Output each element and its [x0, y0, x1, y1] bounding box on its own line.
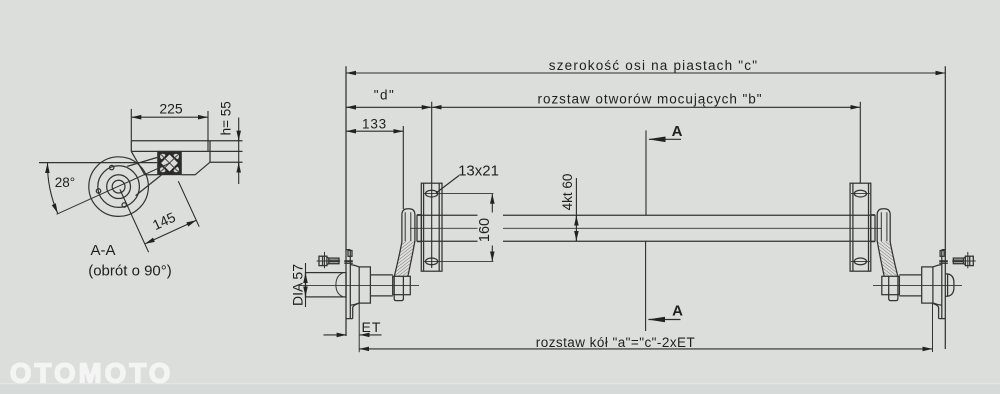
section line A top: [645, 130, 647, 215]
angle arc 28 deg: [47, 163, 57, 213]
h=55 arrow top: [238, 132, 240, 141]
background patch for 160: [478, 213, 504, 246]
right flange face line (also extension for c): [944, 66, 946, 349]
left bearing drum: [359, 267, 370, 303]
hub bore circle: [112, 180, 125, 193]
h=55 arrow bottom: [238, 163, 240, 172]
dimension 145 extension line at hub: [120, 189, 149, 252]
left boss inner lines: [405, 212, 411, 241]
bottom dimension a line: [359, 348, 932, 350]
swing arm edges (section view): [127, 157, 161, 195]
left wheel plane line: [358, 303, 360, 352]
right boss inner lines: [881, 212, 887, 241]
right flange clip line 2: [939, 262, 948, 264]
left mounting plate: [421, 183, 442, 271]
4kt60 arrow bottom: [575, 232, 577, 241]
bracket top plate: [131, 141, 242, 162]
right swing arm boss: [877, 209, 890, 242]
svg-text:OTOMOTO: OTOMOTO: [10, 358, 173, 389]
right stub dome: [945, 274, 954, 296]
right slot center lines: [851, 194, 870, 262]
left slot center lines: [423, 194, 493, 262]
dimension d line: [346, 106, 432, 108]
left flange plate: [346, 250, 353, 319]
dimension 145 line: [145, 220, 196, 244]
svg-text:4kt 60: 4kt 60: [560, 174, 575, 211]
dia57 arrow top: [305, 273, 307, 282]
svg-text:225: 225: [159, 101, 183, 117]
dimension h=55 line: [238, 118, 240, 185]
axle tube center line: [410, 227, 881, 229]
leader 13x21: [436, 176, 459, 194]
hub outer circle: [89, 157, 149, 217]
svg-text:A: A: [672, 303, 683, 320]
left plate top slot: [426, 190, 438, 197]
hub inner circle: [107, 175, 131, 199]
right hub center line: [873, 284, 962, 286]
bracket lower body: [131, 151, 242, 174]
right bearing drum: [922, 267, 933, 303]
right wheel stud bolt: [952, 252, 976, 268]
left cone: [350, 265, 359, 306]
section arrow A top: [648, 137, 681, 143]
4kt60 arrow top: [575, 216, 577, 225]
left flange skirt fillet: [353, 303, 359, 307]
svg-text:A-A: A-A: [90, 242, 115, 259]
left flange top tab: [348, 251, 352, 257]
svg-text:"d": "d": [374, 88, 396, 103]
tube end cap left: [417, 215, 421, 242]
dia57 dimension line: [305, 263, 307, 307]
svg-text:A: A: [672, 123, 683, 140]
extension line b right (slot center): [859, 102, 861, 183]
right clamp block: [882, 276, 900, 300]
svg-text:h= 55: h= 55: [219, 101, 234, 135]
square torsion tube cross-section: [157, 151, 182, 175]
svg-text:133: 133: [362, 117, 387, 132]
right swing arm band: [877, 242, 898, 277]
right swing arm band edges: [877, 242, 898, 277]
extension line b left (slot center): [431, 102, 433, 268]
hub bolt hole 1: [110, 165, 114, 169]
left hub center line: [299, 284, 419, 286]
axle tube bottom line: [417, 240, 875, 242]
left swing arm band edges: [394, 242, 415, 277]
left swing arm boss: [402, 209, 415, 242]
left clamp block: [393, 276, 411, 300]
right wheel plane line: [932, 303, 934, 352]
dimension 225 line: [131, 116, 208, 118]
extension line 133: [402, 126, 404, 209]
right flange skirt fillet: [933, 303, 939, 307]
left wheel stud bolt: [317, 252, 341, 268]
left spindle: [370, 275, 392, 296]
svg-text:28°: 28°: [55, 175, 75, 190]
svg-text:ET: ET: [362, 319, 382, 335]
dimension 225 extension lines: [131, 109, 208, 151]
section arrow A bottom: [648, 317, 681, 323]
dimension 160 line: [491, 194, 493, 262]
tube center horizontal ray: [39, 162, 157, 164]
right cone: [933, 265, 942, 306]
right spindle: [899, 275, 921, 296]
left dia57 cylinder: [306, 273, 347, 297]
left swing arm band: [394, 242, 415, 277]
dimension c line: [346, 72, 945, 74]
dimension 133 line: [346, 130, 403, 132]
hub bolt hole 2: [96, 189, 100, 193]
tube end cap right: [871, 215, 875, 242]
right flange plate: [939, 250, 946, 319]
arm axis ray 28 deg: [57, 163, 171, 214]
section line A bottom: [645, 241, 647, 331]
dimension 4kt60 line: [575, 178, 577, 241]
axle tube top line: [417, 214, 875, 216]
svg-text:rozstaw kół "a"="c"-2xET: rozstaw kół "a"="c"-2xET: [536, 335, 695, 350]
right plate bottom slot: [854, 258, 866, 265]
dia57 arrow bottom: [305, 288, 307, 297]
ET dimension right segment: [360, 334, 382, 336]
left flange face line (also extension for c and ET): [345, 66, 347, 336]
svg-text:160: 160: [477, 218, 493, 242]
svg-text:(obrót o 90°): (obrót o 90°): [88, 263, 172, 280]
svg-text:rozstaw otworów mocujących "b: rozstaw otworów mocujących "b": [538, 92, 763, 107]
left flange clip line 2: [344, 262, 353, 264]
right plate top slot: [854, 190, 866, 197]
svg-text:DIA 57: DIA 57: [289, 264, 305, 306]
bottom band: [0, 384, 1000, 394]
left flange clip: [344, 260, 353, 262]
svg-text:13x21: 13x21: [458, 163, 499, 180]
right flange top tab: [940, 251, 944, 257]
left plate bottom slot: [426, 258, 438, 265]
right flange clip: [939, 260, 948, 262]
hub bolt hole 3: [122, 203, 126, 207]
hub flange circle: [98, 166, 140, 208]
right mounting plate: [850, 183, 871, 271]
svg-text:szerokość osi na piastach "c": szerokość osi na piastach "c": [549, 58, 758, 73]
dimension b line: [432, 106, 861, 108]
dimension 145 extension line at tube: [178, 181, 199, 227]
ET dimension left segment: [324, 334, 347, 336]
